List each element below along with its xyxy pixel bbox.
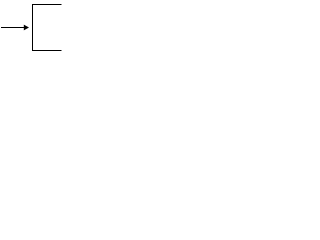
box left edge (32, 4, 33, 51)
wire (1, 27, 24, 28)
box bottom edge (32, 50, 62, 51)
arrowhead (24, 25, 29, 31)
box top edge (32, 4, 62, 5)
